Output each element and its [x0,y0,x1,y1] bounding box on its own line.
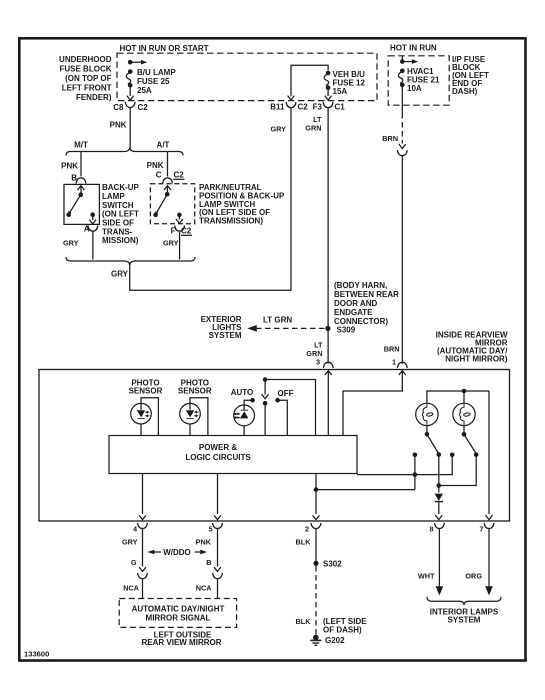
svg-text:M/T: M/T [74,141,88,150]
wire contacts to logic box corner [357,455,452,475]
connector cup pin 4 [138,523,148,529]
svg-text:GRY: GRY [63,239,79,248]
ground G202 [310,635,321,646]
bus arrow at fuse 25 [130,61,142,63]
photo sensor 1 wire to logic box [140,424,142,436]
svg-text:A/T: A/T [157,141,170,150]
switch arrow up to C [164,186,171,190]
wire stub into I/P box [401,56,403,61]
arrow down at B11 [288,96,295,100]
label C2 underlined [174,171,185,180]
svg-text:C2: C2 [138,103,149,112]
switch wiper diagonal (A/T) [156,194,167,213]
label I/P FUSE BLOCK (ON LEFT END OF DASH) [452,55,489,96]
svg-text:LEFT FRONT: LEFT FRONT [62,84,112,93]
junction dot contacts [413,472,418,477]
svg-text:ENDGATE: ENDGATE [334,308,373,317]
photo sensor 1 bracket wire [141,398,158,436]
svg-text:SYSTEM: SYSTEM [448,616,481,625]
svg-text:NCA: NCA [196,584,213,593]
wire wiper 1 down [438,455,440,493]
wire pin 4 from logic box [142,474,144,515]
svg-text:B11: B11 [270,103,285,112]
connector C8/C2 cup [125,102,135,108]
svg-text:8: 8 [429,525,433,534]
svg-text:PNK: PNK [196,538,212,547]
AUTO indicator wire to logic box [243,426,245,436]
bus node dot at fuse 21 [400,59,405,64]
photo sensor 1 label [129,379,163,396]
brace split M/T A/T [66,147,183,155]
label BACK-UP LAMP SWITCH (ON LEFT SIDE OF TRANS- MISSION) [102,183,140,245]
svg-text:FENDER): FENDER) [76,93,112,102]
inline connector G [139,567,146,571]
label UNDERHOOD FUSE BLOCK (ON TOP OF LEFT FRONT FENDER) [59,55,112,102]
label W/DDO with arrows [148,550,207,555]
bus node dot at fuse 25 [128,60,133,65]
svg-text:FUSE 25: FUSE 25 [137,77,170,86]
lamp 1 switch pivot dot [426,426,428,433]
selector wiper arrow [264,380,266,395]
svg-text:SENSOR: SENSOR [178,387,212,396]
wire contacts to pin 2 [316,489,415,491]
label HVAC1 FUSE 21 10A [407,67,440,93]
svg-text:PNK: PNK [110,121,127,130]
svg-text:GRY: GRY [111,270,129,279]
svg-text:POWER &: POWER & [199,443,237,452]
connector cup pin 3 [323,362,333,368]
brace merge GRY [66,257,195,265]
svg-text:(ON LEFT: (ON LEFT [102,210,139,219]
photo sensor 2 label [178,379,212,396]
svg-text:UNDERHOOD: UNDERHOOD [59,55,112,64]
contact dot OFF [275,398,280,403]
label LT GRN 3 (pin 3) [306,341,323,367]
park/neutral switch dashed box (A/T) [150,184,194,224]
svg-text:GRY: GRY [122,538,138,547]
wire GRY run to fuse block B11 [130,107,291,290]
svg-text:MIRROR SIGNAL: MIRROR SIGNAL [146,614,211,623]
svg-text:F3: F3 [313,103,323,112]
photo sensor 2 circle [180,403,201,424]
svg-text:1: 1 [392,358,396,367]
svg-text:LAMP: LAMP [102,192,125,201]
wire GRY pin 4 [142,528,144,567]
wire LT GRN C1 to S309 and pin 3 [327,107,329,364]
contact dot AUTO [250,398,255,403]
dashed wire LT GRN to exterior lights [256,327,326,329]
svg-text:B: B [206,558,211,567]
svg-text:LOGIC CIRCUITS: LOGIC CIRCUITS [185,453,251,462]
connector cup pin 7 [484,523,494,529]
svg-text:(BODY HARN,: (BODY HARN, [334,281,387,290]
svg-text:OF DASH): OF DASH) [323,626,362,635]
label INTERIOR LAMPS SYSTEM [430,608,499,625]
svg-text:133600: 133600 [24,650,49,659]
wire pin 5 from logic box [217,474,219,515]
switch contact dot A [90,212,95,217]
svg-text:GRN: GRN [305,124,321,133]
arrow down to F [178,215,180,220]
back-up lamp switch box (M/T) [64,184,99,224]
label POWER & LOGIC CIRCUITS [185,443,251,462]
dashed wire BLK S302 to G202 [315,566,317,635]
connector cup F [175,226,185,232]
splice S302 dot [313,561,318,566]
junction dot on pin 2 wire [314,487,319,492]
svg-text:NCA: NCA [123,584,140,593]
svg-text:F: F [171,227,176,236]
switch contact dot top (A/T) [165,192,170,197]
wire PNK pin 5 [217,528,219,567]
label PARK/NEUTRAL POSITION & BACK-UP LAMP SWITCH (ON LEFT SIDE OF TRANSMISSION) [199,183,285,226]
svg-text:C2: C2 [174,171,185,180]
contact dot A (lamp sw) [413,453,418,458]
arrow up pin 3 inside box [325,371,332,375]
svg-text:LT GRN: LT GRN [263,316,292,325]
svg-text:TRANS-: TRANS- [102,227,133,236]
photo sensor 2 bracket wire [190,398,208,436]
selector feed node dot [263,377,268,382]
svg-text:SYSTEM: SYSTEM [209,331,242,340]
lamp feed rail wire [427,391,489,403]
inline connector on BRN wire [399,144,406,148]
wire wiper 2 to wiper 1 [439,455,476,486]
svg-text:TRANSMISSION): TRANSMISSION) [199,217,263,226]
svg-text:B/U LAMP: B/U LAMP [137,68,176,77]
svg-text:REAR VIEW MIRROR: REAR VIEW MIRROR [142,638,222,647]
svg-text:5: 5 [208,525,212,534]
svg-text:HOT IN RUN OR START: HOT IN RUN OR START [120,44,209,53]
svg-text:4: 4 [133,525,138,534]
diode D1 [435,494,443,502]
svg-text:15A: 15A [333,87,348,96]
wire PNK to switch B (M/T) [80,152,82,177]
map lamp 2 [453,403,475,425]
wire pin 3 to logic box [327,372,329,436]
inside rearview mirror box [39,370,510,522]
I/P fuse block dashed box [388,56,449,105]
svg-text:S302: S302 [323,560,342,569]
contact dot B (lamp sw) [450,453,455,458]
connector cup C [163,178,173,184]
svg-text:MISSION): MISSION) [102,236,139,245]
power and logic circuits box U1 [109,436,357,474]
svg-text:7: 7 [479,525,483,534]
wire PNK to switch C (A/T) [167,152,169,177]
label (BODY HARN, BETWEEN REAR DOOR AND ENDGATE CONNECTOR) S309 [334,281,399,335]
wire inside fuse block to fuse 12 [291,65,328,96]
svg-text:(ON TOP OF: (ON TOP OF [65,74,111,83]
connector B11 cup [286,102,296,108]
connector cup A [88,226,98,232]
svg-text:SIDE OF: SIDE OF [102,219,134,228]
switch wiper diagonal [69,195,80,214]
photo sensor 2 wire to logic box [189,424,191,436]
svg-text:AUTO: AUTO [231,388,254,397]
connector cup pin 1 [397,362,407,368]
svg-text:GRY: GRY [270,125,286,134]
svg-text:2: 2 [305,525,309,534]
svg-text:HOT IN RUN: HOT IN RUN [390,44,437,53]
svg-text:3: 3 [316,358,320,367]
automatic day/night mirror signal dashed box [119,599,236,628]
wire GRY from A [92,231,94,260]
switch contact dot top [78,192,83,197]
wire AUTO contact to indicator [244,400,253,405]
svg-text:BLK: BLK [296,617,312,626]
svg-text:BETWEEN REAR: BETWEEN REAR [334,290,399,299]
svg-text:10A: 10A [407,84,422,93]
svg-text:25A: 25A [137,86,152,95]
svg-text:C2: C2 [181,227,192,236]
label C2 underlined (F) [181,227,192,236]
connector cup B [76,178,86,184]
lamp 2 switch pivot dot [463,426,465,433]
svg-text:PNK: PNK [61,162,78,171]
inline connector B [214,567,221,571]
AUTO indicator symbol [234,405,248,419]
splice S309 dot [325,326,330,331]
svg-text:A: A [84,225,90,234]
AUTO indicator circle [234,405,255,426]
label (LEFT SIDE OF DASH) [323,617,367,635]
connector C1 cup [323,102,333,108]
wire BRN dashed segment [401,113,403,144]
fuse F12 VEH B/U FUSE 12 15A [324,71,330,90]
switch wiper dot (A/T) [153,213,158,218]
photo sensor 2 symbol [186,403,199,418]
svg-text:AUTOMATIC DAY/NIGHT: AUTOMATIC DAY/NIGHT [132,605,225,614]
label LEFT OUTSIDE REAR VIEW MIRROR [142,631,222,648]
svg-text:GRY: GRY [163,239,179,248]
selector feed wire to logic box [265,380,315,436]
wire pin 7 rail down [488,391,490,514]
label BRN 1 (pin 1) [384,345,400,367]
svg-text:WHT: WHT [418,572,435,581]
lamp 1 switch blade [427,434,438,453]
svg-text:FUSE BLOCK: FUSE BLOCK [60,65,112,74]
photo sensor 1 circle [131,403,152,424]
svg-text:PNK: PNK [147,161,164,170]
switch contact dot F [177,213,182,218]
svg-text:OFF: OFF [278,389,294,398]
junction dot wipers [437,483,442,488]
wire PNK C8 to brace [129,107,131,148]
connector cup pin 5 [213,523,223,529]
underhood fuse block dashed box [117,53,377,100]
svg-text:BRN: BRN [382,134,398,143]
connector cup pin 2 [311,523,321,529]
wire WHT pin 8 [438,528,440,587]
bus arrow at fuse 21 [402,61,413,63]
svg-text:SWITCH: SWITCH [102,201,134,210]
wire BLK pin 2 to S302 [315,528,317,562]
wire fuse25 to connector C8 [129,88,131,97]
wire lamp 2 feed [463,391,465,403]
label EXTERIOR LIGHTS SYSTEM [201,315,243,340]
wire BRN solid below fuse 21 [401,87,403,113]
svg-text:BACK-UP: BACK-UP [102,183,140,192]
svg-text:W/DDO: W/DDO [163,548,191,557]
lamp 2 switch blade [464,434,476,453]
wire pin 2 from logic box [315,474,317,515]
svg-text:GRN: GRN [306,349,322,358]
switch wiper dot [66,212,71,217]
label B/U LAMP FUSE 25 25A [137,68,176,95]
svg-text:C: C [156,171,162,180]
svg-text:C1: C1 [335,103,346,112]
label LT GRN (C1) [305,115,322,133]
wire NCA pin 4 to outside mirror [142,578,144,599]
svg-text:G202: G202 [325,636,345,645]
svg-text:DASH): DASH) [452,87,478,96]
wire GRY from F [179,231,181,260]
junction dot lamp 2 feed [462,389,467,394]
wire BRN solid to mirror pin 1 [401,155,403,364]
fuse F25 B/U LAMP FUSE 25 25A [126,69,132,87]
svg-text:BLK: BLK [296,538,312,547]
svg-text:G: G [131,558,137,567]
wire NCA pin 5 to outside mirror [217,578,219,599]
wire diode to pin 8 [438,502,440,514]
fuse F21 HVAC1 FUSE 21 10A [398,69,404,88]
map lamp 1 [416,403,438,425]
label VEH B/U FUSE 12 15A [333,70,366,96]
selector lower dot [263,401,268,406]
wire OFF contact to logic box [278,400,288,435]
svg-text:NIGHT MIRROR): NIGHT MIRROR) [445,355,508,364]
connector cup pin 8 [435,523,445,529]
svg-text:C8: C8 [113,103,124,112]
svg-text:DOOR AND: DOOR AND [334,299,377,308]
photo sensor 1 symbol [137,403,150,418]
svg-text:SENSOR: SENSOR [129,387,163,396]
svg-text:S309: S309 [337,326,356,335]
wire fuse12 to C1 [327,90,329,96]
brace interior lamps system [427,597,501,605]
arrow up pin 1 inside box [399,371,406,375]
arrow down to A [92,215,94,220]
switch arrow up to B [78,186,85,190]
wire pin 1 to logic box [343,372,402,436]
wire ORG pin 7 [488,528,490,587]
selector wire to logic box [264,403,266,435]
svg-text:C2: C2 [298,103,309,112]
label INSIDE REARVIEW MIRROR (AUTOMATIC DAY/ NIGHT MIRROR) [436,331,509,364]
arrow to exterior lights system [247,325,257,332]
svg-text:BRN: BRN [384,345,400,354]
svg-text:ORG: ORG [465,572,482,581]
